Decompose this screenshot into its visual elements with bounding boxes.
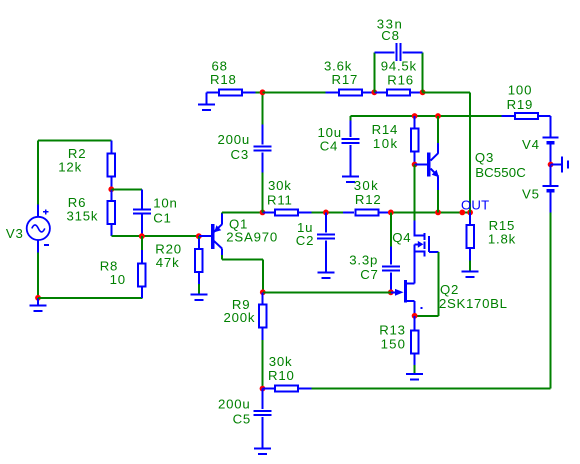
svg-text:V3: V3 bbox=[6, 226, 24, 241]
svg-text:10n: 10n bbox=[153, 196, 177, 211]
svg-text:R10: R10 bbox=[268, 368, 295, 383]
svg-text:BC550C: BC550C bbox=[475, 165, 526, 180]
svg-text:C8: C8 bbox=[381, 28, 399, 43]
svg-text:315k: 315k bbox=[67, 209, 99, 224]
svg-text:200u: 200u bbox=[218, 396, 251, 411]
svg-text:30k: 30k bbox=[269, 354, 293, 369]
svg-text:V4: V4 bbox=[522, 137, 540, 152]
svg-text:2SA970: 2SA970 bbox=[226, 230, 278, 245]
svg-text:C5: C5 bbox=[233, 412, 251, 427]
svg-text:C4: C4 bbox=[320, 139, 338, 154]
svg-text:150: 150 bbox=[381, 337, 407, 352]
svg-text:3.3p: 3.3p bbox=[349, 253, 378, 268]
svg-text:R11: R11 bbox=[267, 193, 293, 208]
svg-text:30k: 30k bbox=[268, 178, 292, 193]
svg-text:47k: 47k bbox=[156, 255, 180, 270]
svg-text:R19: R19 bbox=[507, 97, 534, 112]
svg-text:10: 10 bbox=[110, 272, 126, 287]
svg-text:1.8k: 1.8k bbox=[488, 231, 516, 246]
svg-text:C7: C7 bbox=[360, 267, 378, 282]
svg-text:12k: 12k bbox=[58, 160, 82, 175]
svg-text:200u: 200u bbox=[218, 132, 251, 147]
svg-text:OUT: OUT bbox=[461, 198, 489, 213]
svg-text:10u: 10u bbox=[318, 125, 342, 140]
svg-text:R14: R14 bbox=[372, 122, 399, 137]
svg-text:C1: C1 bbox=[153, 210, 171, 225]
svg-text:R12: R12 bbox=[355, 192, 382, 207]
svg-text:Q4: Q4 bbox=[392, 230, 411, 245]
svg-text:C2: C2 bbox=[296, 233, 314, 248]
svg-text:200k: 200k bbox=[224, 310, 256, 325]
svg-text:R18: R18 bbox=[210, 72, 237, 87]
svg-text:94.5k: 94.5k bbox=[381, 59, 417, 74]
svg-text:R16: R16 bbox=[387, 73, 414, 88]
svg-text:10k: 10k bbox=[373, 136, 399, 151]
svg-text:2SK170BL: 2SK170BL bbox=[439, 296, 508, 311]
svg-text:V5: V5 bbox=[522, 187, 540, 202]
svg-text:R17: R17 bbox=[332, 72, 359, 87]
svg-text:Q3: Q3 bbox=[475, 150, 494, 165]
svg-text:30k: 30k bbox=[354, 178, 379, 193]
svg-text:100: 100 bbox=[508, 83, 532, 98]
svg-text:R13: R13 bbox=[379, 323, 406, 338]
svg-text:C3: C3 bbox=[231, 147, 249, 162]
